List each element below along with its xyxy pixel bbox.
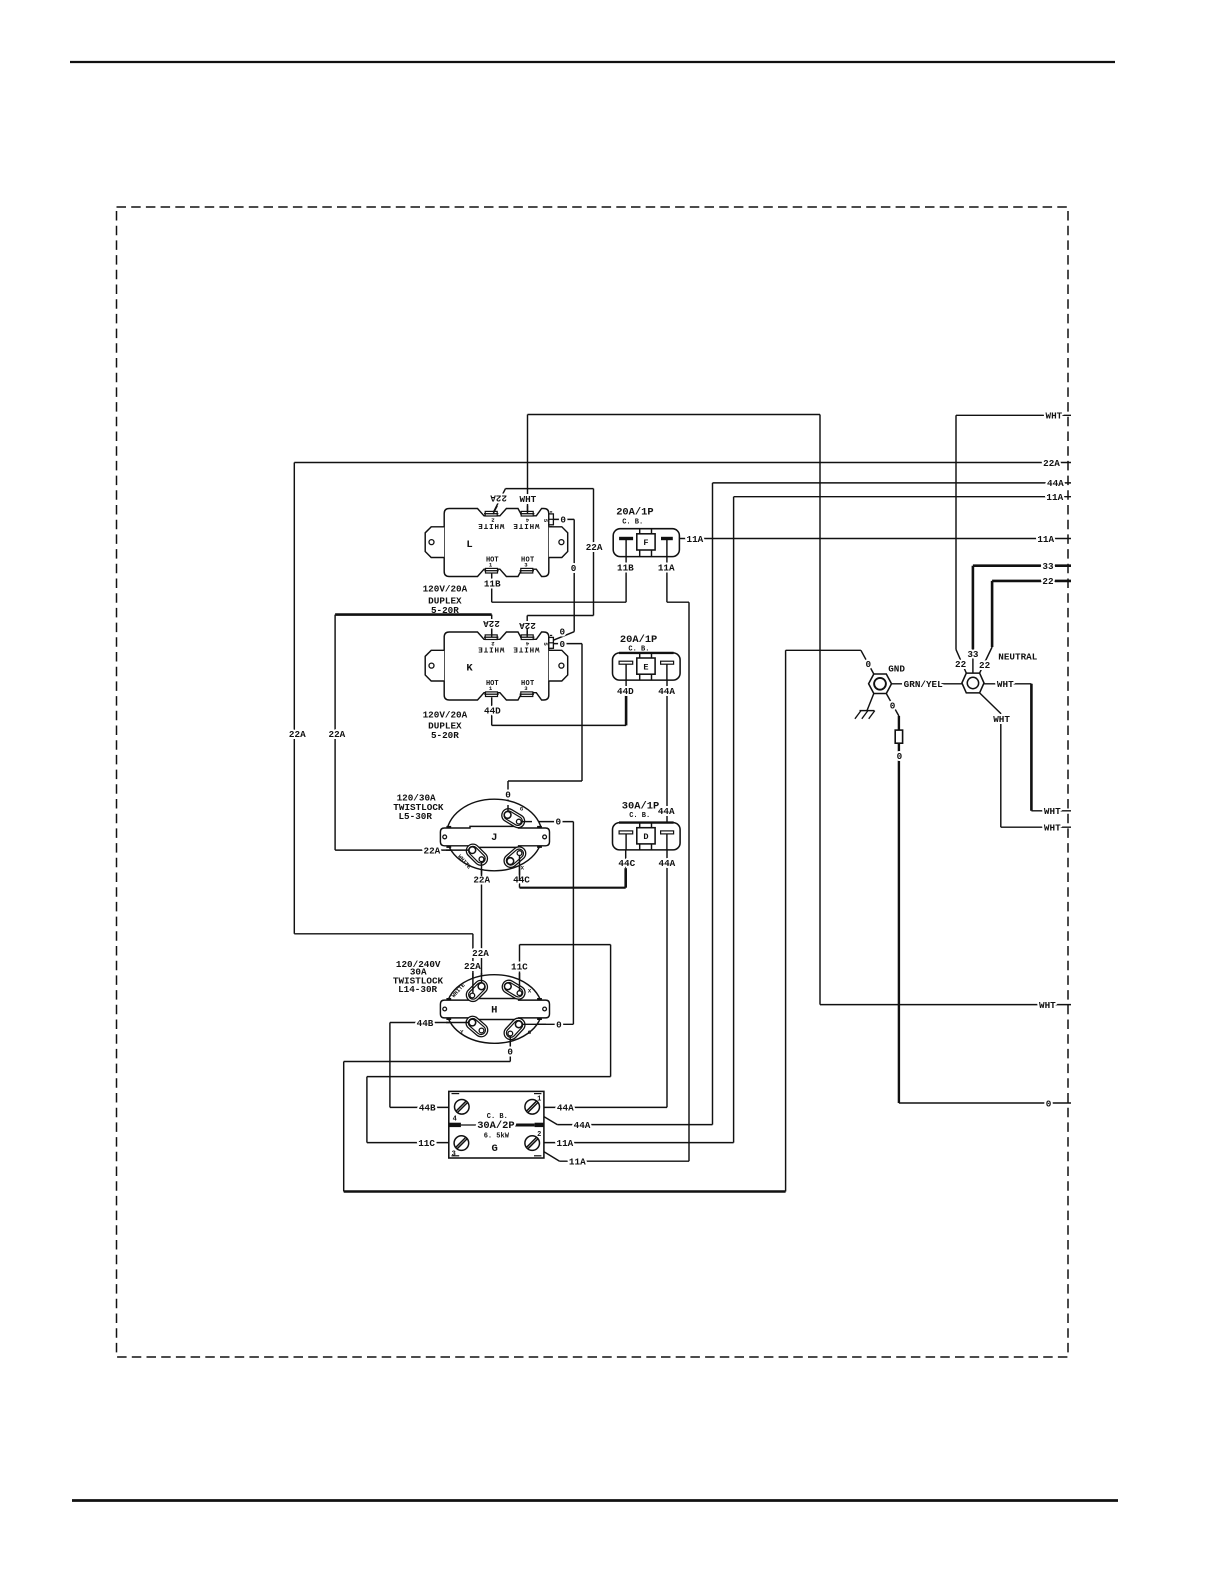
receptacle K 120V/20A duplex 5-20R	[425, 632, 568, 700]
svg-text:44D: 44D	[484, 706, 501, 717]
svg-text:C. B.: C. B.	[622, 519, 643, 527]
wire 44B from twistlock H Y pin to breaker G pole 4	[390, 1023, 472, 1108]
svg-text:0: 0	[505, 790, 511, 801]
svg-text:GND: GND	[888, 663, 905, 674]
svg-text:44A: 44A	[574, 1120, 591, 1131]
svg-text:22A: 22A	[329, 729, 346, 740]
svg-text:22A: 22A	[490, 493, 507, 504]
svg-text:0: 0	[571, 563, 577, 574]
wire stub 22A into K left terminal	[491, 629, 493, 638]
svg-text:0: 0	[866, 659, 872, 670]
svg-text:22A: 22A	[464, 961, 481, 972]
svg-text:4: 4	[453, 1115, 457, 1123]
svg-text:H: H	[491, 1004, 497, 1016]
svg-text:0: 0	[897, 751, 903, 762]
svg-text:44A: 44A	[659, 858, 676, 869]
svg-text:44C: 44C	[513, 875, 530, 886]
svg-text:11A: 11A	[658, 563, 675, 574]
svg-text:11C: 11C	[511, 962, 528, 973]
svg-text:44B: 44B	[417, 1018, 434, 1029]
svg-text:L5-30R: L5-30R	[398, 811, 432, 822]
label 20A/1P C.B. for E	[620, 634, 657, 654]
wire stub 22A into J white pin	[446, 849, 469, 851]
label 120/30A TWISTLOCK L5-30R for J	[393, 793, 444, 822]
wire stub 22A into L terminal	[493, 506, 497, 514]
svg-text:E: E	[643, 662, 648, 672]
svg-text:WHT: WHT	[997, 679, 1014, 690]
svg-text:3: 3	[452, 1151, 456, 1159]
wire stub 22A into H white pin lower	[472, 973, 474, 993]
svg-text:44A: 44A	[1047, 478, 1064, 489]
svg-text:20A/1P: 20A/1P	[616, 507, 653, 519]
wire stub WHT into L terminal	[527, 506, 529, 514]
wire WHT from NEUTRAL stud right side to border	[984, 684, 1071, 811]
svg-text:30A/2P: 30A/2P	[477, 1120, 514, 1132]
svg-text:11A: 11A	[557, 1138, 574, 1149]
svg-text:WHT: WHT	[1039, 1000, 1056, 1011]
wire 22A from J white pin down to H white pin	[481, 859, 483, 986]
svg-text:WHITE: WHITE	[477, 644, 504, 652]
svg-text:44A: 44A	[658, 686, 675, 697]
connector in-line on 0 wire	[895, 730, 902, 743]
svg-text:0: 0	[556, 1020, 562, 1031]
receptacle L 120V/20A duplex 5-20R	[425, 509, 568, 577]
wire 22A from L hot-white terminal to K terminal	[493, 489, 594, 638]
wire 44C from breaker D left terminal to twistlock J X pin	[520, 834, 626, 888]
svg-text:WHT: WHT	[1044, 806, 1061, 817]
svg-text:HOT: HOT	[521, 680, 535, 688]
svg-text:C. B.: C. B.	[629, 812, 650, 820]
label 120V/20A DUPLEX 5-20R for K	[423, 710, 468, 742]
svg-text:22A: 22A	[473, 875, 490, 886]
svg-text:F: F	[643, 538, 648, 548]
wire GRN/YEL between GND and NEUTRAL studs	[892, 683, 962, 685]
svg-text:44A: 44A	[557, 1103, 574, 1114]
wire stub 22A down from J white pin	[481, 862, 483, 876]
svg-text:20A/1P: 20A/1P	[620, 634, 657, 646]
wire 22A from border across page down left side to twistlock H	[294, 463, 1071, 996]
svg-text:0: 0	[507, 1046, 513, 1057]
wire stub 22A into H white pin upper	[481, 973, 483, 983]
wire 11C from twistlock H X pin around to breaker G pole 3	[367, 945, 611, 1143]
wire 22/WHT from border to NEUTRAL stud left	[956, 415, 1071, 673]
svg-text:WHT: WHT	[520, 494, 537, 505]
label 30A/1P C.B. for D	[622, 801, 659, 821]
svg-text:L: L	[466, 539, 472, 551]
svg-text:GRN/YEL: GRN/YEL	[904, 679, 943, 690]
svg-text:11B: 11B	[617, 563, 634, 574]
svg-text:0: 0	[560, 515, 566, 526]
svg-text:0: 0	[560, 626, 566, 637]
svg-text:22A: 22A	[472, 948, 489, 959]
wire 11A from breaker G pole 2 up right side to border	[539, 497, 1071, 1143]
wire stub 0 down from H G pin	[509, 1036, 511, 1046]
svg-text:11C: 11C	[418, 1138, 435, 1149]
svg-text:NEUTRAL: NEUTRAL	[998, 652, 1037, 663]
wire stub 44C from J X pin	[519, 856, 521, 881]
svg-text:J: J	[491, 832, 497, 844]
ground symbol (chassis earth)	[855, 694, 875, 719]
svg-text:WHITE: WHITE	[477, 521, 504, 529]
svg-text:22A: 22A	[1043, 458, 1060, 469]
svg-text:5-20R: 5-20R	[431, 605, 459, 616]
svg-text:WHT: WHT	[1046, 411, 1063, 422]
wire 44A from breaker G pole 1 diagonal up right side to border	[537, 483, 1071, 1125]
svg-text:120V/20A: 120V/20A	[423, 583, 468, 594]
wire 11A from breaker F right terminal to border	[673, 538, 1071, 540]
svg-text:22A: 22A	[289, 729, 306, 740]
wire stub 11C into H X pin	[519, 973, 521, 991]
svg-text:WHT: WHT	[1044, 823, 1061, 834]
svg-text:5-20R: 5-20R	[431, 730, 459, 741]
svg-text:6. 5kW: 6. 5kW	[484, 1133, 510, 1141]
wire stub 0 into J ground pin	[507, 805, 509, 812]
svg-text:L14-30R: L14-30R	[398, 984, 437, 995]
twistlock receptacle H 120/240V 30A L14-30R	[440, 975, 549, 1044]
svg-text:22A: 22A	[424, 845, 441, 856]
svg-text:2: 2	[537, 1131, 541, 1139]
wire 11B from L hot terminal to breaker F left terminal	[492, 540, 626, 602]
wire 33 thick from border to NEUTRAL stud top	[973, 566, 1071, 673]
label C.B. 30A/2P 6.5kW G	[477, 1113, 514, 1155]
svg-text:WHT: WHT	[993, 714, 1010, 725]
svg-text:G: G	[492, 1143, 498, 1155]
wire WHT from receptacle L white terminal up and right, down right side to border	[528, 415, 1072, 1005]
svg-text:44A: 44A	[658, 806, 675, 817]
svg-text:K: K	[466, 662, 473, 674]
svg-text:11B: 11B	[484, 579, 501, 590]
wire 0 from H bottom pin around bottom to GND stud	[344, 650, 874, 1191]
label 120/240V 30A TWISTLOCK L14-30R for H	[393, 959, 444, 995]
wire 0 from J ground pin right and down to H pin	[519, 822, 574, 1025]
svg-text:44C: 44C	[618, 858, 635, 869]
svg-text:22: 22	[1042, 576, 1054, 587]
svg-text:33: 33	[1042, 561, 1054, 572]
wire 44D from breaker E left terminal to receptacle K hot terminal	[492, 664, 626, 726]
svg-text:0: 0	[556, 816, 562, 827]
svg-text:22: 22	[955, 659, 967, 670]
svg-text:11A: 11A	[1037, 534, 1054, 545]
circuit breaker E 20A/1P	[613, 653, 681, 680]
wire 22A thick from K left terminal to twistlock J white pin	[335, 615, 492, 851]
wire stub 0 from H G pin right	[522, 1023, 546, 1025]
wire WHT from NEUTRAL stud lower-right to border	[980, 693, 1071, 827]
svg-text:0: 0	[1046, 1098, 1052, 1109]
svg-text:11A: 11A	[687, 534, 704, 545]
svg-text:HOT: HOT	[486, 556, 499, 564]
svg-text:30A/1P: 30A/1P	[622, 801, 659, 813]
wire 44A from breaker E right terminal down through breaker D to breaker G pole 1	[539, 664, 667, 1108]
svg-text:22A: 22A	[483, 618, 500, 629]
wire 0 from GND stud through connector to border	[886, 694, 1071, 1104]
svg-text:HOT: HOT	[486, 680, 499, 688]
wire 0 neutral from L side tab to K side tab	[508, 519, 582, 815]
svg-text:D: D	[643, 832, 648, 842]
svg-text:33: 33	[967, 649, 979, 660]
svg-text:C. B.: C. B.	[628, 646, 649, 654]
svg-text:22A: 22A	[586, 542, 603, 553]
svg-text:44D: 44D	[617, 686, 634, 697]
label 120V/20A DUPLEX 5-20R for L	[423, 583, 468, 616]
wire stub 22A into K right terminal	[526, 629, 528, 638]
circuit breaker D 30A/1P	[613, 823, 681, 850]
circuit breaker F 20A/1P	[613, 529, 679, 557]
svg-text:11A: 11A	[569, 1157, 586, 1168]
circuit breaker G 30A/2P 6.5kW block	[449, 1091, 544, 1158]
svg-text:11A: 11A	[1046, 492, 1063, 503]
svg-text:0: 0	[560, 639, 566, 650]
svg-text:0: 0	[890, 701, 896, 712]
twistlock receptacle J 120/30A L5-30R	[440, 799, 549, 871]
wire stub 0 from J ground pin to right	[521, 821, 532, 823]
svg-text:44B: 44B	[419, 1103, 436, 1114]
svg-text:1: 1	[537, 1096, 541, 1104]
wire stub 44B into H Y pin	[446, 1022, 469, 1024]
svg-text:120V/20A: 120V/20A	[423, 710, 468, 721]
wire 11A from breaker F right stem down to breaker G pole 2	[537, 540, 689, 1161]
svg-text:HOT: HOT	[521, 556, 535, 564]
svg-text:22: 22	[979, 660, 991, 671]
GND stud (hex)	[869, 674, 892, 694]
NEUTRAL stud (hex)	[962, 673, 984, 693]
label 20A/1P C.B. for F	[616, 507, 653, 527]
wire 22 thick from border to NEUTRAL stud upper-right	[980, 581, 1071, 673]
